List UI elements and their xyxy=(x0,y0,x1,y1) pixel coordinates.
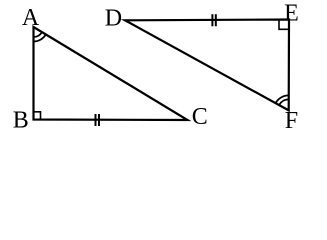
double tick mark on side BC xyxy=(96,114,100,126)
vertex label F xyxy=(285,108,298,134)
double tick mark on side DE xyxy=(212,14,215,26)
svg-text:C: C xyxy=(192,104,208,130)
triangle DEF outline (sides DE, EF, FD) xyxy=(125,20,289,111)
double angle arc at A xyxy=(34,32,46,41)
vertex label B xyxy=(13,107,29,133)
svg-text:D: D xyxy=(105,5,122,31)
vertex label D xyxy=(105,5,122,31)
triangle ABC outline (sides AB, BC, CA) xyxy=(34,27,188,120)
svg-text:E: E xyxy=(284,0,299,26)
double angle arc at F xyxy=(276,95,289,105)
right-angle square at E xyxy=(279,20,289,30)
svg-text:B: B xyxy=(13,107,29,133)
vertex label C xyxy=(192,104,208,130)
vertex label A xyxy=(22,5,40,31)
vertex label E xyxy=(284,0,299,26)
right-angle square at B xyxy=(34,112,41,120)
svg-text:A: A xyxy=(22,5,40,31)
svg-text:F: F xyxy=(285,108,298,134)
